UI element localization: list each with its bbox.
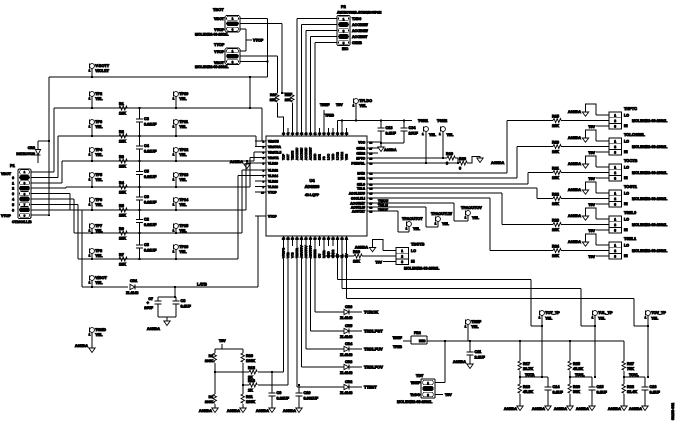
svg-text:TOGT1: TOGT1 — [624, 184, 638, 189]
svg-text:R11: R11 — [270, 93, 276, 97]
svg-text:LO: LO — [624, 192, 629, 196]
svg-text:TOVL: TOVL — [629, 373, 639, 377]
svg-text:TF2B: TF2B — [325, 114, 334, 118]
svg-text:CT2080LL/B: CT2080LL/B — [12, 220, 32, 224]
svg-text:YEL: YEL — [95, 178, 103, 182]
svg-text:TOLCHSEL: TOLCHSEL — [624, 132, 646, 137]
svg-text:T5V: T5V — [375, 260, 382, 264]
svg-text:3OT: 3OT — [286, 154, 290, 160]
svg-text:VIOLET: VIOLET — [95, 69, 109, 73]
svg-text:R22: R22 — [552, 193, 559, 197]
svg-text:3: 3 — [614, 124, 616, 128]
svg-text:T5V: T5V — [588, 229, 595, 233]
svg-text:C5: C5 — [144, 243, 149, 247]
svg-text:CU: CU — [318, 254, 322, 258]
svg-text:R8: R8 — [209, 354, 213, 358]
svg-text:U4: U4 — [309, 178, 315, 183]
svg-text:YEL: YEL — [179, 125, 187, 129]
svg-text:100K: 100K — [205, 359, 214, 363]
svg-text:T5V: T5V — [588, 255, 595, 259]
svg-text:1: 1 — [439, 132, 441, 136]
svg-text:YEL: YEL — [359, 104, 367, 108]
svg-text:YEL: YEL — [95, 281, 103, 285]
svg-text:3: 3 — [232, 60, 234, 64]
svg-text:C7: C7 — [148, 297, 153, 301]
svg-text:TTEST: TTEST — [364, 384, 377, 389]
svg-text:R13: R13 — [248, 379, 255, 383]
svg-text:1: 1 — [173, 229, 175, 233]
svg-text:TP10: TP10 — [179, 92, 188, 96]
svg-text:C14: C14 — [553, 385, 561, 389]
svg-text:TP3: TP3 — [95, 120, 102, 124]
svg-text:100K: 100K — [205, 400, 214, 404]
svg-text:19: 19 — [309, 238, 312, 241]
svg-text:ZL4148: ZL4148 — [340, 353, 352, 357]
svg-text:1: 1 — [173, 203, 175, 207]
svg-text:12: 12 — [341, 238, 344, 241]
svg-text:HI: HI — [624, 124, 628, 128]
svg-text:VDD: VDD — [331, 153, 335, 160]
svg-text:VTOP: VTOP — [214, 28, 224, 32]
svg-text:TF2B: TF2B — [393, 345, 402, 349]
svg-text:TPAOUTOT: TPAOUTOT — [402, 217, 423, 221]
svg-text:9: 9 — [24, 214, 26, 217]
svg-text:TCROK: TCROK — [364, 309, 378, 314]
svg-text:TEST5: TEST5 — [291, 150, 295, 160]
svg-text:YEL: YEL — [95, 203, 103, 207]
svg-text:10K: 10K — [552, 254, 559, 258]
svg-text:AGNDA: AGNDA — [568, 136, 582, 140]
svg-text:TUVL: TUVL — [575, 373, 585, 377]
svg-text:AGNDA: AGNDA — [355, 246, 369, 250]
svg-text:TREF: TREF — [320, 103, 330, 107]
svg-text:YEL: YEL — [95, 229, 103, 233]
svg-text:TTOP: TTOP — [214, 42, 225, 47]
svg-text:2.2UF: 2.2UF — [475, 356, 486, 360]
svg-text:YEL: YEL — [429, 133, 437, 137]
svg-text:47: 47 — [287, 133, 290, 136]
svg-text:CR4: CR4 — [345, 342, 352, 346]
svg-text:HI: HI — [624, 228, 628, 232]
svg-text:1: 1 — [645, 316, 647, 320]
svg-text:AGNDA: AGNDA — [554, 407, 568, 411]
svg-text:MOLEX/22-03-2031L: MOLEX/22-03-2031L — [632, 223, 668, 227]
svg-text:TP7: TP7 — [95, 224, 102, 228]
svg-text:38: 38 — [327, 133, 330, 136]
svg-text:MOLEX/22-03-2031L: MOLEX/22-03-2031L — [404, 267, 440, 271]
svg-text:C16: C16 — [650, 385, 657, 389]
svg-text:LO: LO — [624, 244, 629, 248]
svg-text:23: 23 — [291, 238, 294, 241]
svg-text:0.01UF: 0.01UF — [144, 201, 157, 205]
svg-text:VBOT: VBOT — [214, 17, 225, 21]
svg-text:GND: GND — [327, 251, 331, 259]
svg-text:10K: 10K — [119, 263, 126, 267]
svg-text:AGNDA: AGNDA — [568, 188, 582, 192]
svg-text:42: 42 — [309, 133, 312, 136]
svg-text:R20: R20 — [459, 157, 466, 161]
svg-text:R1: R1 — [119, 102, 124, 106]
svg-text:82.4K: 82.4K — [627, 390, 637, 394]
svg-text:15: 15 — [327, 238, 330, 241]
svg-text:VRGT1: VRGT1 — [268, 156, 279, 160]
svg-text:TSEL0: TSEL0 — [624, 210, 636, 215]
svg-text:1: 1 — [24, 171, 26, 174]
svg-text:1: 1 — [173, 178, 175, 182]
svg-text:ACCH4W: ACCH4W — [352, 29, 368, 33]
svg-text:LO: LO — [624, 218, 629, 222]
svg-text:CR5: CR5 — [345, 324, 352, 328]
svg-text:YEL: YEL — [95, 333, 103, 337]
svg-text:R21: R21 — [552, 167, 559, 171]
svg-text:24: 24 — [287, 238, 290, 241]
svg-text:CR3: CR3 — [345, 360, 352, 364]
svg-text:HI: HI — [411, 260, 415, 264]
svg-text:TRDLFGT: TRDLFGT — [364, 328, 383, 333]
svg-text:2: 2 — [614, 171, 616, 175]
svg-text:T5V: T5V — [445, 393, 452, 397]
svg-text:YEL: YEL — [179, 250, 187, 254]
svg-text:VLD14: VLD14 — [268, 174, 278, 178]
svg-text:TRDLFOV: TRDLFOV — [364, 364, 383, 369]
svg-text:C6: C6 — [144, 195, 149, 199]
svg-text:AGNDA: AGNDA — [568, 240, 582, 244]
svg-text:R11: R11 — [246, 395, 253, 399]
svg-text:R2: R2 — [119, 130, 124, 134]
svg-text:2: 2 — [614, 119, 616, 123]
svg-text:R6: R6 — [119, 227, 124, 231]
svg-text:41: 41 — [314, 133, 317, 136]
svg-text:AOUTXT: AOUTXT — [352, 209, 365, 213]
svg-text:2: 2 — [401, 254, 403, 258]
svg-text:10K: 10K — [353, 260, 360, 264]
svg-text:10K: 10K — [552, 176, 559, 180]
svg-text:ACCH2U: ACCH2U — [300, 148, 304, 160]
svg-text:TP4: TP4 — [95, 148, 103, 152]
svg-text:R23: R23 — [552, 219, 559, 223]
svg-text:0.01UF: 0.01UF — [144, 123, 157, 127]
svg-text:TSEL1: TSEL1 — [624, 236, 637, 241]
svg-text:ZL4148: ZL4148 — [340, 391, 352, 395]
svg-text:C5: C5 — [144, 170, 149, 174]
svg-text:AGNDA: AGNDA — [384, 148, 397, 152]
svg-text:0.1UF: 0.1UF — [553, 391, 564, 395]
svg-text:BH8: BH8 — [419, 339, 426, 343]
svg-text:AGNDA: AGNDA — [453, 360, 467, 364]
svg-text:AD8280: AD8280 — [305, 184, 320, 189]
svg-text:R9: R9 — [209, 395, 213, 399]
svg-text:1: 1 — [89, 178, 91, 182]
svg-text:C34: C34 — [409, 126, 417, 130]
svg-text:0.01UF: 0.01UF — [144, 150, 157, 154]
svg-text:1: 1 — [427, 381, 429, 385]
svg-text:1: 1 — [614, 243, 616, 247]
svg-text:R10: R10 — [246, 354, 253, 358]
svg-text:PWRFBL: PWRFBL — [351, 161, 365, 165]
svg-text:0.1UF: 0.1UF — [386, 132, 397, 136]
svg-text:11: 11 — [345, 238, 348, 241]
svg-text:C8: C8 — [181, 299, 186, 303]
svg-text:TP15: TP15 — [179, 224, 188, 228]
svg-text:OSCLKLI: OSCLKLI — [351, 196, 365, 200]
svg-text:39: 39 — [323, 133, 326, 136]
svg-text:3: 3 — [232, 27, 234, 31]
svg-text:1: 1 — [173, 153, 175, 157]
svg-text:TGND: TGND — [95, 328, 106, 332]
svg-text:LATB: LATB — [197, 283, 207, 287]
svg-text:1: 1 — [406, 227, 408, 231]
svg-text:0.01UF: 0.01UF — [144, 175, 157, 179]
svg-text:VLD12: VLD12 — [268, 168, 278, 172]
svg-text:10K: 10K — [552, 150, 559, 154]
svg-text:AGNDA: AGNDA — [568, 110, 582, 114]
svg-text:0.001UF: 0.001UF — [304, 397, 319, 401]
svg-text:AMTECTSML4XXSMD65P2H: AMTECTSML4XXSMD65P2H — [337, 11, 382, 15]
svg-text:1: 1 — [89, 69, 91, 73]
svg-text:VLD18: VLD18 — [268, 185, 278, 189]
svg-text:TWCU: TWCU — [378, 199, 389, 203]
svg-text:VBOT: VBOT — [1, 172, 12, 176]
svg-text:AGNDA: AGNDA — [283, 409, 297, 413]
svg-text:R25: R25 — [573, 362, 580, 366]
svg-text:IGTB: IGTB — [357, 171, 365, 175]
svg-text:TPAOUTOV: TPAOUTOV — [461, 206, 482, 210]
svg-text:VDD2: VDD2 — [340, 152, 344, 160]
svg-text:5: 5 — [343, 41, 345, 45]
svg-text:1: 1 — [89, 229, 91, 233]
svg-text:45.3K: 45.3K — [573, 367, 583, 371]
svg-text:LDO: LDO — [327, 153, 331, 160]
svg-text:TP5: TP5 — [95, 173, 102, 177]
svg-text:75K: 75K — [627, 367, 634, 371]
svg-text:DX2: DX2 — [318, 154, 322, 160]
svg-text:45.3K: 45.3K — [523, 390, 533, 394]
svg-text:VTOP: VTOP — [268, 190, 277, 194]
svg-text:NPTC: NPTC — [356, 156, 365, 160]
svg-text:AGNDA: AGNDA — [568, 214, 582, 218]
svg-text:MOLEX/22-03-2031L: MOLEX/22-03-2031L — [632, 197, 668, 201]
svg-text:TP11: TP11 — [179, 120, 188, 124]
svg-text:LO: LO — [624, 140, 629, 144]
svg-text:43: 43 — [305, 133, 308, 136]
svg-text:3: 3 — [614, 202, 616, 206]
svg-text:1: 1 — [12, 181, 14, 185]
svg-text:1: 1 — [614, 217, 616, 221]
svg-text:ZL4148: ZL4148 — [340, 371, 352, 375]
svg-text:R24: R24 — [552, 245, 560, 249]
svg-text:10K: 10K — [119, 165, 126, 169]
svg-text:P2: P2 — [341, 4, 347, 9]
svg-text:1: 1 — [401, 249, 403, 253]
svg-text:CHB1: CHB1 — [356, 146, 365, 150]
svg-text:F3: F3 — [322, 156, 326, 160]
svg-text:AGNDA: AGNDA — [491, 161, 505, 165]
svg-text:VSS: VSS — [345, 154, 349, 160]
svg-text:YEL: YEL — [179, 229, 187, 233]
svg-text:ACCHGT: ACCHGT — [309, 147, 313, 160]
svg-text:0: 0 — [12, 176, 14, 180]
svg-text:TP6: TP6 — [95, 198, 102, 202]
svg-text:48-LQFP: 48-LQFP — [305, 193, 320, 197]
svg-text:R28: R28 — [627, 385, 634, 389]
svg-text:TGN2: TGN2 — [437, 119, 447, 123]
svg-text:HI: HI — [624, 176, 628, 180]
svg-text:1: 1 — [614, 165, 616, 169]
svg-text:6: 6 — [12, 208, 14, 212]
svg-text:AGNDA: AGNDA — [568, 162, 582, 166]
svg-text:INC: INC — [342, 47, 349, 51]
svg-text:TBOT: TBOT — [213, 7, 224, 12]
svg-text:44: 44 — [300, 133, 303, 136]
svg-text:0.1UF: 0.1UF — [650, 391, 661, 395]
svg-text:TP12: TP12 — [179, 148, 188, 152]
svg-text:5: 5 — [12, 203, 14, 207]
svg-text:AGNDA: AGNDA — [532, 407, 546, 411]
svg-text:1: 1 — [173, 125, 175, 129]
svg-text:3: 3 — [427, 393, 429, 397]
svg-text:TXD0: TXD0 — [352, 17, 361, 21]
svg-text:HI: HI — [624, 150, 628, 154]
svg-text:LO: LO — [624, 114, 629, 118]
svg-text:YEL: YEL — [179, 203, 187, 207]
svg-text:MOLEX/22-03-2031L: MOLEX/22-03-2031L — [195, 65, 229, 69]
svg-text:TPLDO: TPLDO — [359, 99, 372, 103]
svg-text:1: 1 — [435, 222, 437, 226]
svg-text:2: 2 — [614, 223, 616, 227]
svg-text:36: 36 — [336, 133, 339, 136]
svg-text:C10: C10 — [304, 391, 311, 395]
svg-text:R15: R15 — [552, 115, 559, 119]
svg-text:34: 34 — [345, 133, 348, 136]
svg-text:HI: HI — [624, 202, 628, 206]
svg-text:THPTC: THPTC — [624, 106, 637, 111]
svg-text:YEL: YEL — [95, 125, 103, 129]
svg-text:1: 1 — [422, 132, 424, 136]
svg-text:1: 1 — [89, 333, 91, 337]
svg-text:1: 1 — [539, 316, 541, 320]
svg-text:YEL: YEL — [95, 97, 103, 101]
svg-text:R18: R18 — [523, 385, 530, 389]
svg-text:ACCH0U: ACCH0U — [295, 148, 299, 160]
svg-text:1: 1 — [89, 281, 91, 285]
svg-text:10K: 10K — [119, 112, 126, 116]
svg-text:TBGTB: TBGTB — [411, 242, 425, 247]
svg-text:3: 3 — [614, 150, 616, 154]
svg-text:ZL4148: ZL4148 — [340, 316, 352, 320]
svg-text:10K: 10K — [285, 98, 292, 102]
svg-text:VTOP: VTOP — [253, 39, 264, 43]
svg-text:1: 1 — [89, 153, 91, 157]
svg-text:R20: R20 — [552, 141, 559, 145]
svg-text:V/BOT: V/BOT — [95, 276, 107, 280]
svg-text:IGT1: IGT1 — [358, 176, 365, 180]
svg-text:35: 35 — [341, 133, 344, 136]
svg-text:R27: R27 — [627, 362, 634, 366]
svg-text:TOV_TP: TOV_TP — [651, 311, 666, 315]
svg-text:VRGT1.5: VRGT1.5 — [268, 150, 282, 154]
svg-text:R4: R4 — [119, 181, 125, 185]
svg-text:ACCHGT: ACCHGT — [352, 35, 368, 39]
svg-text:AGNDA: AGNDA — [227, 409, 241, 413]
svg-text:1: 1 — [232, 49, 234, 53]
svg-text:TREF: TREF — [393, 336, 403, 340]
svg-text:YEL: YEL — [471, 325, 479, 329]
svg-text:10UF: 10UF — [409, 132, 419, 136]
svg-text:VTOP: VTOP — [268, 214, 277, 218]
svg-text:TOT_TP: TOT_TP — [545, 311, 560, 315]
svg-text:17: 17 — [318, 238, 321, 241]
svg-text:TWLU: TWLU — [378, 204, 388, 208]
svg-text:10K: 10K — [119, 191, 126, 195]
svg-text:3: 3 — [24, 182, 26, 185]
svg-text:MOLEX/22-03-2031L: MOLEX/22-03-2031L — [632, 145, 668, 149]
svg-text:DXD: DXD — [313, 153, 317, 160]
svg-text:0.01UF: 0.01UF — [277, 397, 290, 401]
svg-text:TWOT: TWOT — [378, 208, 389, 212]
svg-text:YEL: YEL — [598, 317, 606, 321]
svg-text:1: 1 — [614, 113, 616, 117]
svg-text:10K: 10K — [270, 98, 277, 102]
svg-text:TRDLFUV: TRDLFUV — [364, 346, 383, 351]
svg-text:100K: 100K — [246, 359, 255, 363]
svg-text:T5V: T5V — [219, 339, 226, 343]
svg-text:YEL: YEL — [442, 222, 450, 226]
svg-text:TOTA: TOTA — [525, 373, 535, 377]
svg-text:CR8: CR8 — [28, 146, 35, 150]
svg-text:VCC: VCC — [358, 140, 365, 144]
svg-text:R7: R7 — [119, 253, 124, 257]
svg-text:2: 2 — [614, 197, 616, 201]
svg-text:48: 48 — [282, 133, 285, 136]
svg-text:3: 3 — [614, 176, 616, 180]
svg-text:10K: 10K — [119, 237, 126, 241]
svg-text:0: 0 — [459, 167, 461, 171]
svg-text:TP14: TP14 — [179, 198, 189, 202]
svg-text:MOLEX/22-03-2031L: MOLEX/22-03-2031L — [632, 249, 668, 253]
svg-text:5: 5 — [24, 193, 26, 196]
svg-text:7: 7 — [24, 204, 26, 207]
svg-text:2: 2 — [12, 187, 14, 191]
svg-text:TDT: TDT — [416, 374, 424, 378]
svg-text:1: 1 — [89, 203, 91, 207]
svg-text:1: 1 — [89, 97, 91, 101]
svg-text:16: 16 — [323, 238, 326, 241]
svg-text:AGNDA: AGNDA — [230, 160, 244, 164]
svg-text:VRGT5: VRGT5 — [268, 139, 279, 143]
svg-text:VTOP: VTOP — [214, 50, 224, 54]
svg-text:YEL: YEL — [179, 178, 187, 182]
svg-text:LO: LO — [411, 249, 416, 253]
svg-text:1: 1 — [465, 325, 467, 329]
svg-text:10K: 10K — [552, 228, 559, 232]
svg-text:3: 3 — [614, 228, 616, 232]
svg-text:TOCTB: TOCTB — [624, 158, 638, 163]
svg-text:AGNDA: AGNDA — [256, 409, 270, 413]
svg-text:C13: C13 — [386, 126, 393, 130]
svg-text:2K: 2K — [248, 389, 253, 393]
svg-text:TP2: TP2 — [95, 92, 102, 96]
svg-text:R17: R17 — [523, 362, 530, 366]
svg-text:CR1: CR1 — [130, 279, 137, 283]
svg-text:37: 37 — [332, 133, 335, 136]
svg-text:T5V: T5V — [588, 125, 595, 129]
svg-text:3: 3 — [614, 254, 616, 258]
svg-text:YEL: YEL — [95, 153, 103, 157]
svg-text:ZL4148: ZL4148 — [126, 291, 138, 295]
svg-text:ACCH4U: ACCH4U — [304, 148, 308, 160]
svg-text:TBL1: TBL1 — [357, 186, 365, 190]
svg-text:CH3B: CH3B — [352, 41, 362, 45]
